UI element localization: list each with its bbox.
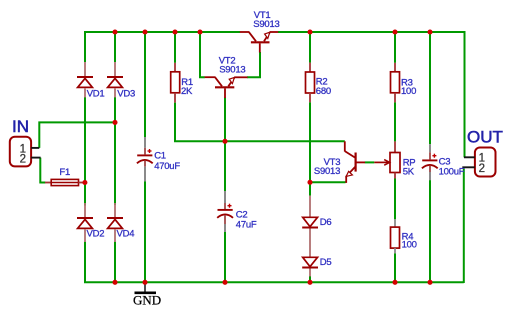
resistor R4 — [391, 219, 400, 253]
diode D5 — [302, 257, 318, 276]
wire R3 RP R4 column — [394, 32, 396, 283]
diode VD2 — [77, 203, 93, 242]
fuse F1 — [45, 179, 84, 185]
svg-text:2K: 2K — [181, 86, 193, 97]
junction dots top rail — [112, 29, 432, 34]
resistor R3 — [391, 63, 400, 103]
wire VT2 base down to node — [224, 98, 226, 142]
svg-text:2: 2 — [479, 163, 485, 175]
svg-text:2: 2 — [20, 154, 26, 166]
junction dots bottom rail — [112, 280, 432, 285]
wire VD1/VD2 column — [84, 97, 86, 283]
svg-text:OUT: OUT — [467, 127, 503, 146]
svg-text:100uF: 100uF — [439, 167, 465, 178]
svg-text:S9013: S9013 — [253, 19, 279, 30]
svg-text:100: 100 — [401, 86, 416, 97]
transistor VT1 — [240, 32, 278, 53]
wire VT2 collector feed — [200, 32, 205, 77]
capacitor C3 — [422, 144, 438, 180]
svg-text:GND: GND — [133, 292, 161, 307]
svg-text:470uF: 470uF — [154, 161, 180, 172]
wire R1 column and node wire to VT3 — [175, 32, 345, 141]
svg-text:D6: D6 — [320, 217, 332, 228]
svg-text:5K: 5K — [403, 167, 415, 178]
svg-text:IN: IN — [12, 117, 29, 136]
svg-text:680: 680 — [316, 86, 331, 97]
wire C1 column — [144, 32, 146, 283]
capacitor C2 — [217, 191, 233, 232]
diode VD4 — [107, 203, 123, 242]
connector IN — [10, 137, 41, 167]
svg-text:D5: D5 — [320, 257, 332, 268]
junction dot VT2 base node — [222, 139, 227, 144]
junction dot IN to bridge — [112, 120, 117, 125]
svg-text:47uF: 47uF — [236, 220, 257, 231]
svg-text:S9013: S9013 — [219, 65, 245, 76]
potentiometer RP — [374, 141, 400, 178]
wire VT2 emitter to VT1 base — [247, 52, 260, 77]
wire VT3 emitter to reference node — [310, 181, 346, 183]
wire top rail left segment — [85, 32, 240, 62]
capacitor C1 — [137, 137, 153, 182]
wire OUT pin2 to bottom rail — [463, 169, 465, 284]
transistor VT3 — [345, 141, 365, 183]
svg-text:F1: F1 — [59, 167, 70, 178]
connector OUT — [462, 148, 495, 177]
resistor R1 — [171, 63, 180, 103]
diode VD3 — [107, 62, 123, 98]
svg-text:VD1: VD1 — [87, 88, 105, 99]
wire C2 column — [224, 141, 226, 283]
wire R2 column — [309, 32, 311, 182]
svg-text:S9013: S9013 — [314, 166, 340, 177]
junction dot reference node — [307, 180, 312, 185]
wire C3 column — [429, 32, 431, 283]
wire IN pin1 to VD3 node — [39, 122, 115, 147]
wire bottom rail — [84, 281, 464, 283]
junction dot fuse node — [82, 180, 87, 185]
wire top rail right segment — [278, 32, 465, 157]
svg-text:VD2: VD2 — [87, 229, 105, 240]
svg-text:VD3: VD3 — [117, 88, 135, 99]
wire IN pin2 to fuse — [40, 158, 45, 183]
diode VD1 — [77, 62, 93, 98]
diode D6 — [302, 196, 318, 257]
wire VD3/VD4 column — [114, 32, 116, 283]
resistor R2 — [306, 63, 315, 103]
wire VT3 base to RP wiper — [365, 161, 375, 163]
transistor VT2 — [205, 77, 248, 98]
svg-text:100: 100 — [402, 239, 417, 250]
ground — [135, 283, 157, 293]
svg-text:VD4: VD4 — [117, 229, 135, 240]
wire D6 D5 column — [309, 182, 311, 283]
